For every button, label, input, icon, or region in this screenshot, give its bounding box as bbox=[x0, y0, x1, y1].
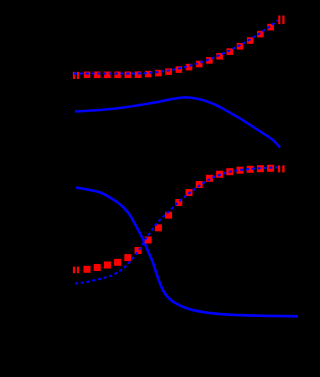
bottom panel: clipped half-markers at right end of series 4 bbox=[278, 165, 285, 172]
bottom panel: blue dashed ascending fit line (series 5) bbox=[75, 167, 278, 283]
bottom panel: blue solid descending curve (series 3) bbox=[76, 188, 298, 317]
top panel: clipped half-markers at right end of series 1 bbox=[278, 16, 284, 25]
bottom panel: clipped half-markers at left end of series 4 bbox=[73, 267, 79, 274]
bottom panel: red square data markers (series 4) bbox=[84, 165, 275, 273]
top panel: clipped half-markers at left end of series 1 bbox=[73, 72, 79, 79]
top panel: blue solid curve (series 2) bbox=[75, 97, 280, 147]
top panel: red square data markers (series 1) bbox=[84, 24, 274, 78]
top panel: blue dashed fit line through series 1 bbox=[74, 20, 278, 73]
